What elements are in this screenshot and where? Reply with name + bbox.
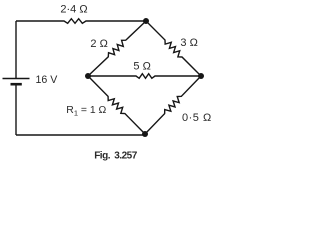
resistor 2 ohm (top node to left node) [88,21,146,76]
svg-text:3 Ω: 3 Ω [180,37,197,49]
resistor 0.5 ohm (right node to bottom node) [145,76,201,134]
resistor 5 ohm (left node to right node, bridge branch) [88,74,201,79]
wire left upper (battery + to top) [15,21,17,79]
node bottom [142,131,148,137]
wire left lower (battery - to bottom) [15,85,17,136]
svg-text:16 V: 16 V [36,74,59,86]
svg-text:5 Ω: 5 Ω [133,61,150,73]
svg-text:2·4 Ω: 2·4 Ω [60,4,87,16]
battery V1 long plate [3,78,30,80]
resistor 3 ohm (top node to right node) [146,21,201,76]
node right [198,73,204,79]
node top [143,18,149,24]
svg-text:R1 = 1 Ω: R1 = 1 Ω [66,105,106,117]
svg-text:0·5 Ω: 0·5 Ω [182,112,212,124]
wire top with resistor R 2.4 ohm [16,19,146,24]
wire bottom [16,134,145,136]
node left [85,73,91,79]
svg-text:Fig. 3.257: Fig. 3.257 [94,151,138,162]
resistor R1 1 ohm (left node to bottom node) [88,76,145,134]
svg-text:2 Ω: 2 Ω [90,38,107,50]
battery V1 short plate [11,83,22,86]
